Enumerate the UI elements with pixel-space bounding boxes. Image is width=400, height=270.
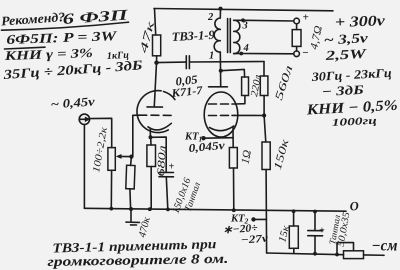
svg-text:О: О bbox=[349, 199, 359, 214]
wire grid lead of V1 bbox=[133, 115, 139, 156]
transformer primary winding bbox=[219, 9, 221, 18]
resistor 1Ω cathode bbox=[229, 148, 237, 169]
potentiometer 100÷2,2к bbox=[108, 148, 115, 171]
resistor bias series bbox=[344, 251, 364, 259]
ground symbol bbox=[129, 207, 133, 211]
svg-text:+: + bbox=[303, 12, 309, 24]
resistor 150к grid leak V2 bbox=[264, 116, 266, 143]
wire bias loop tap bbox=[337, 243, 354, 255]
node КТ1 test point bbox=[201, 136, 205, 140]
node cathode junction bbox=[149, 135, 153, 139]
wire bias rail bbox=[267, 253, 344, 255]
wire V2 cathode down bbox=[232, 127, 234, 148]
svg-text:1Ω: 1Ω bbox=[240, 149, 254, 165]
capacitor 50,0x35 Тантал bias bbox=[314, 212, 316, 231]
wire input shield to ground rail bbox=[83, 125, 85, 209]
svg-text:2: 2 bbox=[207, 12, 214, 23]
wire secondary pin3 to output bbox=[241, 18, 245, 22]
svg-text:+ 300v: + 300v bbox=[335, 13, 386, 31]
output terminal - bbox=[294, 51, 300, 57]
node top rail junction bbox=[218, 7, 222, 11]
svg-text:+: + bbox=[169, 162, 175, 173]
wire V1 cathode down bbox=[149, 129, 151, 138]
svg-text:ТВЗ-1-9: ТВЗ-1-9 bbox=[171, 28, 215, 44]
triode V1 envelope bbox=[137, 91, 168, 133]
pentode V2 anode bbox=[209, 86, 228, 88]
svg-text:+: + bbox=[319, 226, 325, 237]
capacitor 0,05 К71-7 coupling bbox=[157, 61, 186, 64]
resistor 15к bias divider bbox=[293, 211, 295, 226]
pentode V2 screen grid dashes bbox=[209, 103, 236, 105]
svg-text:громкоговорителе 8 ом.: громкоговорителе 8 ом. bbox=[47, 251, 228, 269]
svg-text:~ 3,5v: ~ 3,5v bbox=[323, 30, 369, 47]
resistor 470к grid leak bbox=[130, 157, 133, 166]
input connector X1 bbox=[79, 114, 89, 124]
svg-text:− 3дБ: − 3дБ bbox=[321, 82, 364, 99]
resistor 560л grid stopper bbox=[263, 62, 265, 77]
wire 220л screen feed bbox=[221, 69, 245, 77]
triode V1 grid dashes bbox=[139, 114, 171, 116]
pentode V2 control grid dashes bbox=[209, 114, 235, 116]
svg-text:−27v: −27v bbox=[240, 233, 268, 247]
resistor 680л cathode bbox=[150, 137, 152, 145]
svg-text:3: 3 bbox=[242, 21, 248, 32]
svg-text:−см: −см bbox=[372, 238, 398, 255]
triode V1 cathode bbox=[148, 123, 171, 130]
node dots on ground rail bbox=[109, 207, 113, 211]
wire grid junction to control grid bbox=[235, 114, 265, 116]
pentode V2 envelope bbox=[204, 92, 238, 137]
svg-text:КНИ γ = 3%: КНИ γ = 3% bbox=[3, 45, 93, 63]
wire top rail B+ bbox=[154, 9, 333, 11]
node anode junction V1 bbox=[154, 61, 158, 65]
wire secondary pin4 to output bbox=[239, 52, 243, 56]
output terminal + bbox=[294, 18, 300, 24]
node grid junction V2 bbox=[262, 113, 266, 117]
transformer core bbox=[228, 19, 231, 53]
node pentode anode junction bbox=[219, 69, 223, 73]
resistor 47к anode load bbox=[155, 9, 156, 36]
svg-text:1: 1 bbox=[209, 51, 214, 62]
node grid junction bbox=[129, 155, 133, 159]
wire primary bottom to pentode anode bbox=[219, 52, 221, 87]
triode V1 anode bbox=[147, 106, 163, 108]
capacitor 150,0x16 Тантал bbox=[151, 137, 167, 172]
svg-text:2,5W: 2,5W bbox=[324, 46, 367, 63]
transformer secondary winding bbox=[234, 20, 240, 53]
pot wiper arrow bbox=[120, 155, 132, 157]
svg-text:4: 4 bbox=[243, 43, 249, 54]
wire ground rail bbox=[84, 208, 346, 211]
wire input to pot bbox=[90, 118, 112, 147]
resistor 220л bbox=[242, 77, 249, 96]
pentode V2 cathode bbox=[210, 126, 234, 131]
resistor 4,7Ω load bbox=[296, 24, 298, 30]
node КТ2 test point bbox=[251, 217, 255, 221]
